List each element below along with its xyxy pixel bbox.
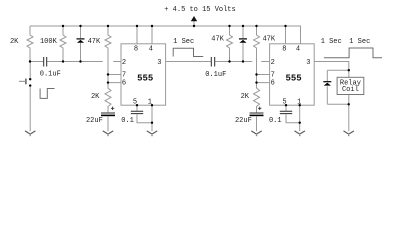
ground (555 #1 pin 1)	[147, 131, 157, 136]
ground (22uF #1)	[103, 131, 113, 136]
label 22uF	[86, 117, 103, 125]
label 2K	[10, 38, 19, 46]
wire pin 8 (555 #2)	[285, 26, 287, 44]
resistor 2K (555 #2 timing)	[254, 83, 260, 113]
svg-text:7: 7	[122, 71, 126, 79]
svg-text:4: 4	[149, 46, 153, 54]
svg-text:0.1uF: 0.1uF	[205, 71, 226, 79]
svg-text:3: 3	[157, 59, 161, 67]
capacitor 0.1uF (coupling)	[211, 57, 214, 67]
resistor 47K (555 #1 charge)	[105, 26, 111, 75]
svg-text:1 Sec: 1 Sec	[173, 38, 194, 46]
label 47K	[211, 35, 224, 43]
output pulse waveform 1	[173, 48, 203, 56]
svg-text:22uF: 22uF	[86, 117, 103, 125]
capacitor 22uF (555 #2)	[250, 107, 264, 132]
wire trigger net 555 #1	[30, 61, 121, 63]
svg-text:4: 4	[296, 46, 300, 54]
wire output 555 #2	[314, 62, 349, 71]
pin 7	[122, 71, 126, 79]
node dots chip bottoms	[136, 104, 301, 106]
label 47K	[262, 35, 275, 43]
svg-text:0.1: 0.1	[269, 117, 282, 125]
label 0.1	[121, 117, 134, 125]
wire pin 1 to ground	[151, 105, 153, 131]
svg-text:47K: 47K	[88, 38, 101, 46]
wire 47K to pins 7-6 (555 #2)	[257, 75, 270, 83]
svg-text:2: 2	[271, 59, 275, 67]
resistor 47K (555 #2 charge)	[254, 26, 260, 75]
pin 2	[271, 59, 275, 67]
label 22uF	[235, 117, 252, 125]
label 2K	[91, 93, 100, 101]
pin 2	[122, 59, 126, 67]
pin 3	[157, 59, 161, 67]
label 2K	[241, 93, 250, 101]
label 100K	[40, 38, 58, 46]
capacitor 0.1uF (trigger)	[44, 57, 47, 67]
wire pin 1 to ground (555 #2)	[299, 105, 301, 131]
ground (pushbutton)	[25, 131, 35, 136]
capacitor 0.1 (555 #1 pin 5)	[131, 105, 152, 123]
pin 4	[149, 26, 153, 54]
svg-text:Coil: Coil	[342, 86, 359, 94]
node dots on trigger net 2	[228, 60, 244, 62]
svg-text:2K: 2K	[10, 38, 19, 46]
svg-text:555: 555	[137, 74, 153, 84]
pin 5	[133, 99, 137, 107]
capacitor 22uF (555 #1)	[101, 107, 115, 132]
pushbutton switch	[19, 62, 31, 132]
wire relay branch	[327, 70, 349, 131]
ground (555 #2 pin 1)	[295, 131, 305, 136]
wire output 555 #1	[166, 61, 270, 63]
ground (relay)	[344, 131, 354, 136]
label 47K	[88, 38, 101, 46]
svg-text:7: 7	[271, 71, 275, 79]
pin 1	[297, 99, 301, 107]
wire 47K to pins 7-6	[108, 75, 121, 83]
svg-text:2K: 2K	[91, 93, 100, 101]
pin 8	[282, 46, 286, 54]
label 0.1uF	[40, 71, 61, 79]
svg-text:8: 8	[134, 46, 138, 54]
ground (22uF #2)	[251, 131, 261, 136]
op-amp U2 555 timer #2	[270, 44, 315, 105]
node dots pins 7-6	[107, 73, 258, 84]
supply arrow	[191, 16, 197, 26]
pin 3	[306, 59, 310, 67]
wire top supply rail	[30, 26, 301, 44]
node dots ground runs	[151, 69, 350, 124]
pin 8	[134, 26, 138, 54]
resistor 2K (555 #1 timing)	[105, 83, 111, 113]
pin 5	[282, 99, 286, 107]
label 1 Sec	[349, 38, 370, 46]
svg-text:6: 6	[122, 80, 126, 88]
svg-text:3: 3	[306, 59, 310, 67]
svg-text:47K: 47K	[262, 35, 275, 43]
diode D3 (flyback)	[323, 70, 331, 104]
svg-text:0.1: 0.1	[121, 117, 134, 125]
svg-text:22uF: 22uF	[235, 117, 252, 125]
svg-text:6: 6	[271, 80, 275, 88]
svg-text:555: 555	[285, 74, 301, 84]
label + 4.5 to 15 Volts	[164, 6, 235, 14]
svg-text:1 Sec: 1 Sec	[349, 38, 370, 46]
node dots on supply rail	[62, 25, 287, 27]
diode D1 (across 100K)	[77, 26, 85, 62]
svg-text:8: 8	[282, 46, 286, 54]
resistor 2K (left)	[27, 26, 33, 62]
pin 6	[122, 80, 126, 88]
diode D2 (across 47K)	[239, 26, 247, 62]
svg-text:2K: 2K	[241, 93, 250, 101]
svg-text:2: 2	[122, 59, 126, 67]
op-amp U1 555 timer #1	[121, 44, 166, 105]
output square waveform 2	[324, 48, 382, 58]
node dots on trigger net 1	[29, 60, 82, 62]
resistor 100K	[60, 26, 66, 62]
svg-text:1 Sec: 1 Sec	[321, 38, 342, 46]
relay coil box	[337, 77, 364, 94]
pin 7	[271, 71, 275, 79]
resistor 47K (555 #2 left)	[227, 26, 233, 62]
pin 1	[148, 99, 152, 107]
svg-text:100K: 100K	[40, 38, 58, 46]
label 1 Sec	[321, 38, 342, 46]
pin 4	[296, 46, 300, 54]
svg-text:+ 4.5 to 15 Volts: + 4.5 to 15 Volts	[164, 6, 235, 14]
label 1 Sec	[173, 38, 194, 46]
capacitor 0.1 (555 #2 pin 5)	[280, 105, 300, 123]
trigger pulse waveform	[40, 89, 54, 99]
svg-text:47K: 47K	[211, 35, 224, 43]
svg-text:0.1uF: 0.1uF	[40, 71, 61, 79]
pin 6	[271, 80, 275, 88]
label 0.1	[269, 117, 282, 125]
label 0.1uF	[205, 71, 226, 79]
